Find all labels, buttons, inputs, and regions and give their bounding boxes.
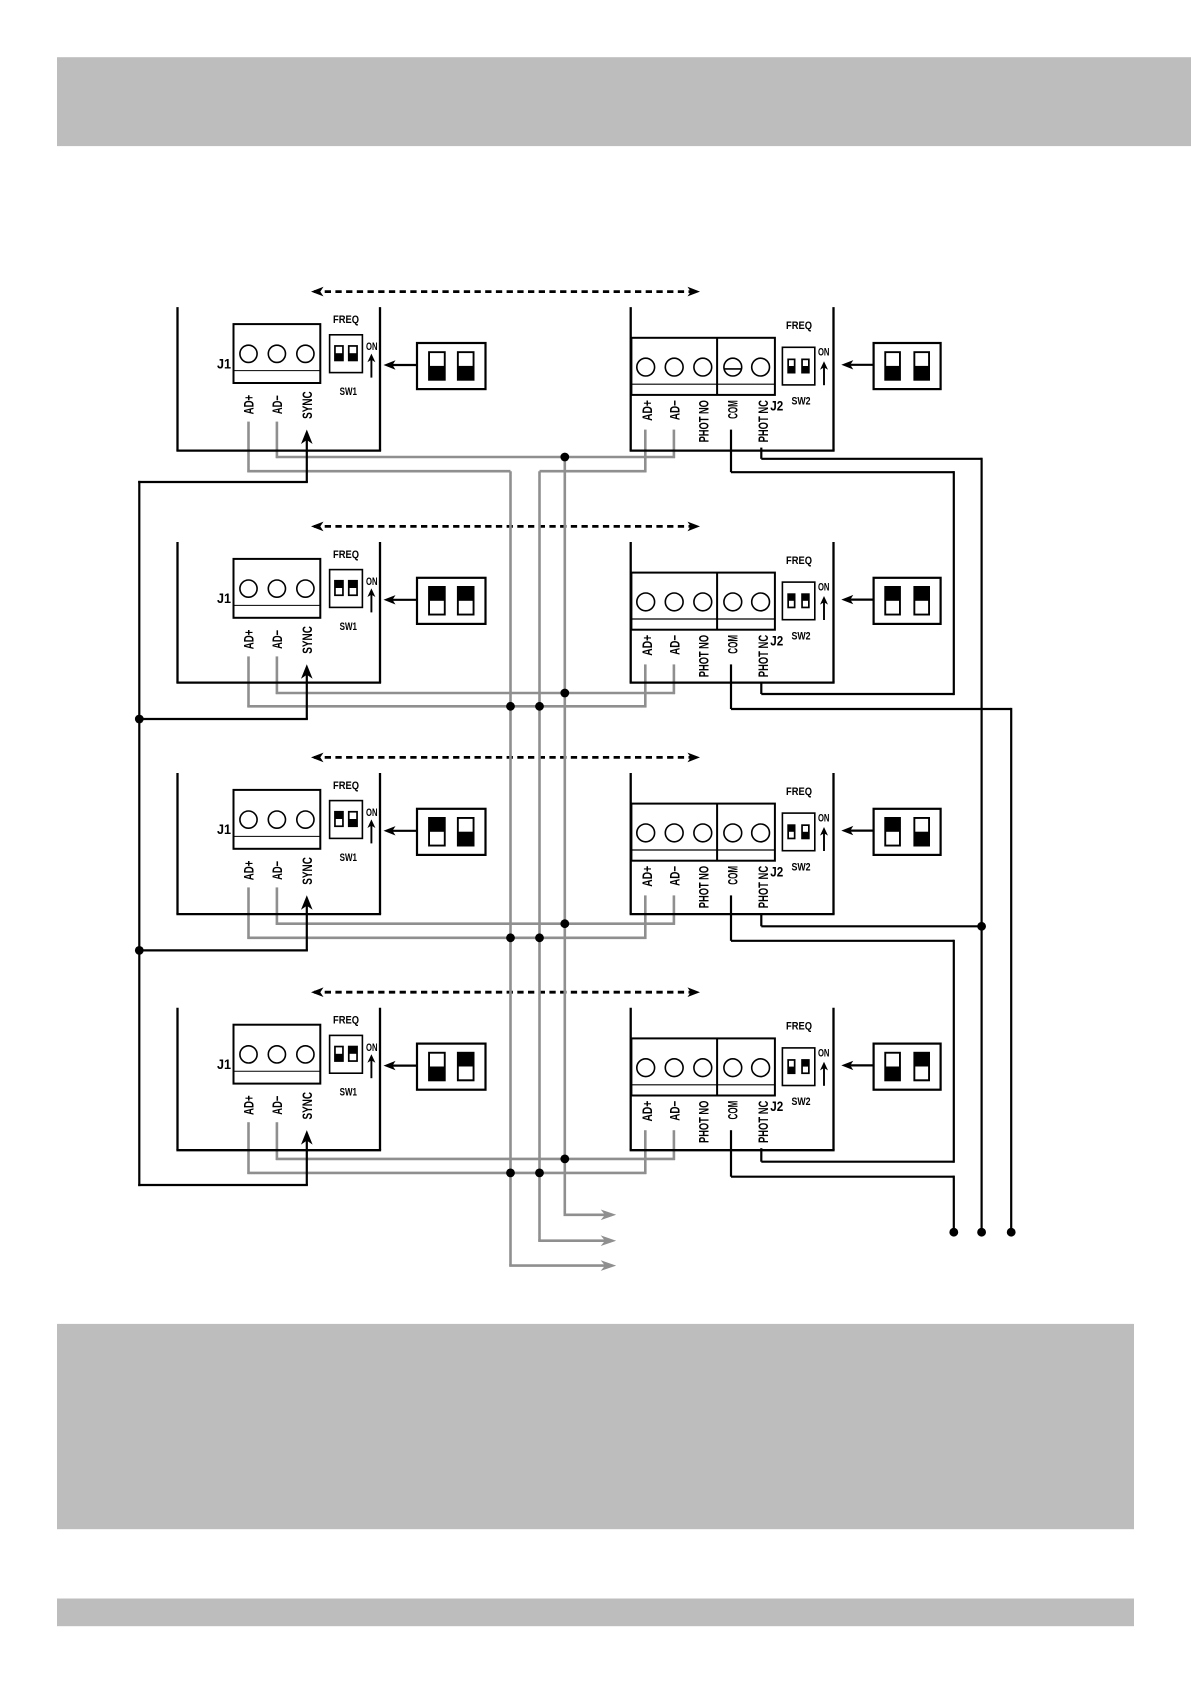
terminal dot PHOT NC bus	[977, 1228, 986, 1237]
wire AD- row4	[276, 1158, 675, 1161]
svg-text:SW2: SW2	[791, 861, 810, 873]
wire COM RX1 drop	[730, 430, 732, 473]
RX unit 2 body outline	[630, 542, 835, 683]
arrowhead bus A	[601, 1260, 617, 1271]
terminal dot COM RX2 line	[1007, 1228, 1016, 1237]
ON direction arrow (RX2)	[820, 596, 828, 620]
wire COM RX4 horizontal	[731, 1176, 954, 1178]
wire AD+ drop TX2	[247, 656, 250, 707]
DIP switch SW2 (RX1)	[782, 347, 814, 385]
DIP setting icon (RX2)	[874, 578, 941, 624]
terminal block J2 (RX3)	[631, 804, 775, 861]
SYNC arrowhead row1	[301, 430, 313, 445]
DIP switch SW2 (RX3)	[782, 813, 814, 851]
DIP switch SW2 (RX4)	[782, 1048, 814, 1086]
SYNC arrowhead row3	[301, 895, 313, 910]
wire AD- drop TX3	[276, 887, 279, 924]
wire AD- drop RX3	[673, 895, 676, 924]
ON direction arrow (RX1)	[820, 361, 828, 385]
svg-text:FREQ: FREQ	[333, 549, 359, 561]
wire AD- row1	[276, 456, 675, 459]
wire COM RX4 vertical	[953, 1176, 955, 1230]
svg-text:J1: J1	[217, 1056, 231, 1072]
junction bus A row2	[506, 702, 515, 711]
junction bus C row4	[560, 1155, 569, 1164]
svg-text:AD+: AD+	[639, 400, 655, 421]
svg-text:SYNC: SYNC	[299, 626, 315, 654]
svg-text:AD+: AD+	[241, 395, 257, 415]
svg-text:AD−: AD−	[269, 630, 285, 649]
svg-text:SW1: SW1	[340, 621, 357, 633]
TX unit 4 body outline	[176, 1008, 381, 1150]
DIP setting icon (RX1)	[874, 343, 941, 389]
SYNC riser row4	[306, 1139, 308, 1185]
terminal block J2 (RX4)	[631, 1038, 775, 1095]
wire AD+ drop RX3	[644, 895, 647, 939]
svg-text:PHOT NO: PHOT NO	[695, 1101, 711, 1143]
svg-text:ON: ON	[818, 813, 830, 825]
wire AD+ row2	[247, 705, 646, 708]
svg-text:SYNC: SYNC	[299, 391, 315, 419]
ON direction arrow (TX2)	[367, 588, 375, 612]
arrow from DIP icon to SW1 (TX1)	[384, 360, 418, 369]
SYNC riser row3	[306, 904, 308, 951]
svg-text:FREQ: FREQ	[333, 780, 359, 792]
DIP switch SW1 (TX3)	[330, 801, 363, 839]
arrow from DIP icon to SW1 (TX3)	[384, 826, 418, 835]
terminal block J1 (TX1)	[234, 324, 321, 383]
bottom large gray banner	[57, 1324, 1134, 1529]
svg-text:COM: COM	[725, 1101, 741, 1120]
svg-text:PHOT NC: PHOT NC	[755, 1101, 771, 1143]
junction bus B row2	[535, 702, 544, 711]
svg-text:PHOT NC: PHOT NC	[755, 866, 771, 908]
wire PHOT NC RX3 drop	[760, 913, 762, 926]
wire AD- drop TX2	[276, 656, 279, 694]
wire AD+ drop RX2	[644, 664, 647, 707]
terminal block J1 (TX4)	[234, 1025, 321, 1084]
RX unit 3 body outline	[630, 773, 835, 914]
svg-text:AD−: AD−	[667, 1101, 683, 1121]
svg-text:ON: ON	[818, 1047, 830, 1059]
svg-text:FREQ: FREQ	[786, 786, 812, 798]
wire PHOT NC RX3 horizontal	[761, 925, 980, 927]
svg-text:ON: ON	[366, 807, 378, 819]
RX unit 4 body outline	[630, 1008, 835, 1150]
wire AD+ drop TX3	[247, 887, 250, 939]
ON direction arrow (TX1)	[367, 354, 375, 378]
svg-text:AD−: AD−	[269, 861, 285, 880]
ON direction arrow (TX4)	[367, 1054, 375, 1078]
arrow from DIP icon to SW2 (RX4)	[841, 1061, 873, 1070]
svg-text:FREQ: FREQ	[786, 555, 812, 567]
svg-text:FREQ: FREQ	[786, 1021, 812, 1033]
svg-text:FREQ: FREQ	[333, 1015, 359, 1027]
wire PHOT NC RX1 horizontal	[761, 458, 981, 460]
TX unit 1 body outline	[176, 307, 381, 451]
SYNC branch row2	[138, 718, 308, 720]
svg-text:COM: COM	[725, 400, 741, 419]
wire: AD+ bus B outlet to control unit	[538, 1239, 606, 1242]
SYNC arrowhead row4	[301, 1130, 313, 1145]
svg-text:AD−: AD−	[667, 866, 683, 886]
wire: AD- bus C vertical	[563, 457, 566, 1215]
svg-text:PHOT NO: PHOT NO	[695, 635, 711, 677]
arrowhead bus C	[601, 1210, 617, 1221]
DIP setting icon (TX4)	[417, 1044, 486, 1090]
svg-text:ON: ON	[818, 582, 830, 594]
ON direction arrow (RX3)	[820, 827, 828, 851]
wire: AD- bus C outlet to control unit	[564, 1214, 607, 1217]
junction bus C row3	[560, 919, 569, 928]
wire: AD+ bus A vertical	[509, 471, 512, 1265]
terminal block J2 (RX1)	[631, 338, 775, 395]
svg-text:J2: J2	[770, 863, 783, 879]
svg-text:J1: J1	[217, 355, 231, 371]
svg-text:AD−: AD−	[269, 1096, 285, 1115]
junction PHOT NC RX3	[977, 922, 986, 931]
DIP setting icon (TX2)	[417, 578, 486, 624]
SYNC branch row4	[138, 1184, 308, 1186]
svg-text:J1: J1	[217, 821, 231, 837]
bottom thin gray banner	[57, 1599, 1134, 1627]
wire AD+ TX1 to bus A	[247, 470, 510, 473]
wire COM RX2 horizontal	[731, 708, 1011, 710]
terminal block J1 (TX2)	[234, 559, 321, 618]
svg-text:AD+: AD+	[639, 866, 655, 887]
wire COM RX2 drop	[730, 664, 732, 709]
junction bus A row4	[506, 1169, 515, 1178]
dashed sync-beam arrow pair 2	[311, 522, 700, 532]
wire AD+ row4	[247, 1172, 646, 1175]
svg-text:ON: ON	[818, 347, 830, 359]
svg-text:AD+: AD+	[241, 861, 257, 881]
SYNC riser row1	[306, 438, 308, 482]
wire AD- drop TX1	[276, 422, 279, 459]
SYNC riser row2	[306, 673, 308, 719]
wire COM RX3 to PHOT NC RX4 vertical	[953, 940, 955, 1163]
wire COM RX1 to PHOT NC RX2 vertical	[953, 471, 955, 695]
wire PHOT NC vertical bus	[980, 458, 982, 1230]
wire AD- drop RX2	[673, 664, 676, 694]
terminal block J1 (TX3)	[234, 790, 321, 849]
svg-text:SW2: SW2	[791, 396, 810, 408]
top gray banner	[57, 57, 1191, 146]
svg-text:ON: ON	[366, 341, 378, 353]
svg-text:AD−: AD−	[667, 635, 683, 655]
wire: AD+ bus A outlet to control unit	[509, 1264, 606, 1267]
svg-text:COM: COM	[725, 866, 741, 885]
DIP setting icon (TX3)	[417, 809, 486, 855]
svg-text:SW1: SW1	[340, 1087, 357, 1099]
dashed sync-beam arrow pair 1	[311, 287, 700, 297]
junction bus C row1	[560, 453, 569, 462]
svg-text:SYNC: SYNC	[299, 1092, 315, 1120]
junction bus A row3	[506, 933, 515, 942]
junction bus B row4	[535, 1169, 544, 1178]
svg-text:AD+: AD+	[639, 635, 655, 656]
SYNC bus junction row2	[135, 715, 144, 724]
wire AD- drop RX1	[673, 430, 676, 459]
SYNC branch row1	[138, 481, 308, 483]
wire: AD+ bus B vertical	[538, 471, 541, 1240]
junction bus B row3	[535, 933, 544, 942]
junction bus C row2	[560, 689, 569, 698]
wire AD+ drop RX4	[644, 1130, 647, 1174]
terminal block J2 (RX2)	[631, 573, 775, 630]
wire COM RX3 drop	[730, 895, 732, 940]
wire COM RX3 horizontal	[731, 940, 954, 942]
arrow from DIP icon to SW2 (RX1)	[841, 360, 873, 369]
DIP setting icon (TX1)	[417, 343, 486, 389]
svg-text:ON: ON	[366, 1042, 378, 1054]
arrow from DIP icon to SW1 (TX2)	[384, 595, 418, 604]
DIP switch SW2 (RX2)	[782, 582, 814, 620]
wire AD+ row3	[247, 936, 646, 939]
wire AD+ drop TX4	[247, 1122, 250, 1174]
wire PHOT NC RX4 horizontal	[761, 1161, 954, 1163]
svg-text:SW2: SW2	[791, 630, 810, 642]
svg-text:PHOT NO: PHOT NO	[695, 866, 711, 908]
arrow from DIP icon to SW2 (RX3)	[841, 826, 873, 835]
svg-text:COM: COM	[725, 635, 741, 654]
TX unit 3 body outline	[176, 773, 381, 914]
svg-text:ON: ON	[366, 576, 378, 588]
svg-text:FREQ: FREQ	[786, 320, 812, 332]
DIP setting icon (RX3)	[874, 809, 941, 855]
svg-text:SW1: SW1	[340, 852, 357, 864]
dashed sync-beam arrow pair 3	[311, 753, 700, 763]
DIP setting icon (RX4)	[874, 1044, 941, 1090]
wire AD+ drop TX1	[247, 422, 250, 473]
svg-text:J2: J2	[770, 1098, 783, 1114]
svg-text:SW2: SW2	[791, 1096, 810, 1108]
dashed sync-beam arrow pair 4	[311, 987, 700, 997]
svg-text:AD+: AD+	[241, 1095, 257, 1115]
TX unit 2 body outline	[176, 542, 381, 683]
wire AD- drop RX4	[673, 1130, 676, 1160]
arrow from DIP icon to SW2 (RX2)	[841, 595, 873, 604]
DIP switch SW1 (TX4)	[330, 1035, 363, 1073]
arrowhead bus B	[601, 1235, 617, 1246]
SYNC bus junction row3	[135, 946, 144, 955]
wire COM RX1 horizontal	[731, 471, 954, 473]
wire COM RX2 vertical	[1010, 708, 1012, 1230]
RX unit 1 body outline	[630, 307, 835, 451]
wire AD- row2	[276, 692, 675, 695]
screw slot circle 4 (RX1)	[724, 368, 741, 370]
wire AD- row3	[276, 922, 675, 925]
svg-text:AD+: AD+	[241, 630, 257, 650]
wire COM RX4 drop	[730, 1130, 732, 1177]
wire PHOT NC RX2 horizontal	[761, 693, 954, 695]
svg-text:PHOT NC: PHOT NC	[755, 635, 771, 677]
wire AD+ RX1 to bus B	[540, 470, 647, 473]
DIP switch SW1 (TX2)	[330, 570, 363, 608]
SYNC branch row3	[138, 949, 308, 951]
svg-text:AD−: AD−	[667, 400, 683, 420]
wire PHOT NC RX1 drop	[760, 448, 762, 459]
terminal dot COM RX4 line	[949, 1228, 958, 1237]
svg-text:SW1: SW1	[340, 386, 357, 398]
svg-text:J1: J1	[217, 590, 231, 606]
wire PHOT NC RX2 drop	[760, 682, 762, 694]
ON direction arrow (RX4)	[820, 1062, 828, 1086]
wire PHOT NC RX4 drop	[760, 1148, 762, 1162]
svg-text:PHOT NO: PHOT NO	[695, 400, 711, 442]
arrow from DIP icon to SW1 (TX4)	[384, 1061, 418, 1070]
ON direction arrow (TX3)	[367, 819, 375, 843]
wire AD+ drop RX1	[644, 430, 647, 473]
svg-text:AD+: AD+	[639, 1101, 655, 1122]
svg-text:J2: J2	[770, 398, 783, 414]
svg-text:J2: J2	[770, 632, 783, 648]
svg-text:AD−: AD−	[269, 395, 285, 414]
svg-text:PHOT NC: PHOT NC	[755, 400, 771, 442]
wire AD- drop TX4	[276, 1122, 279, 1160]
SYNC arrowhead row2	[301, 664, 313, 679]
svg-text:SYNC: SYNC	[299, 857, 315, 885]
DIP switch SW1 (TX1)	[330, 335, 363, 373]
SYNC bus vertical	[138, 481, 140, 1186]
svg-text:FREQ: FREQ	[333, 314, 359, 326]
